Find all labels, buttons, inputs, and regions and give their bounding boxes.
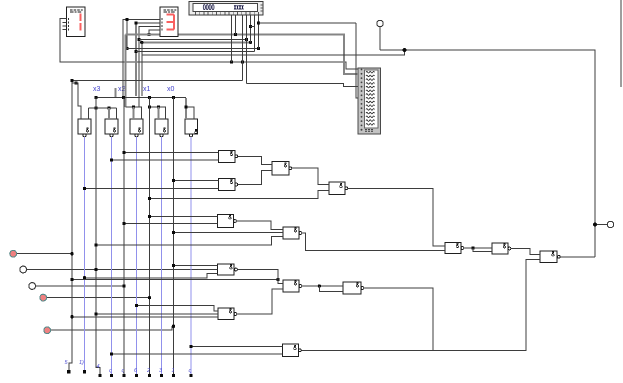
wire gate M out xyxy=(560,256,596,258)
NAND gate H xyxy=(218,308,237,320)
junction c7 xyxy=(257,21,260,24)
junction xyxy=(135,304,138,307)
junction xyxy=(148,197,151,200)
junction xyxy=(157,105,160,108)
tap to gate N input2 xyxy=(124,223,218,225)
tap to gate H input1 xyxy=(137,306,219,312)
blue output DD1 xyxy=(84,137,86,371)
wire v115.4 xyxy=(114,88,116,98)
junction xyxy=(125,47,128,50)
NAND gate J xyxy=(283,344,302,357)
junction xyxy=(134,50,137,53)
junction xyxy=(234,33,237,36)
wire gate F out to G xyxy=(237,270,283,284)
LCD display module xyxy=(189,2,263,16)
svg-text:2: 2 xyxy=(146,368,150,374)
wire v136 xyxy=(135,23,137,96)
junction on y62 run xyxy=(241,60,244,63)
input terminal T3 xyxy=(29,283,124,290)
NAND gate E xyxy=(283,227,302,239)
wire v141 xyxy=(141,42,143,96)
wire run y51.5 xyxy=(136,51,255,53)
wire run y48.5 xyxy=(127,48,259,50)
svg-text:1): 1) xyxy=(79,360,84,366)
junction xyxy=(184,105,187,108)
wire HL1 to ROM pin1 xyxy=(60,19,358,70)
junction xyxy=(137,38,140,41)
bottom endpoint dot 3 xyxy=(98,374,101,377)
svg-text:4: 4 xyxy=(97,364,100,370)
wire run y42.4 xyxy=(142,41,251,43)
junction T1 node xyxy=(70,252,73,255)
net input1 vertical xyxy=(69,82,72,370)
wire DD4 left pin xyxy=(158,107,160,119)
svg-text:x0: x0 xyxy=(167,86,175,93)
junction xyxy=(110,352,113,355)
wire v356 to ROM pin6 xyxy=(356,23,358,98)
bottom endpoint dot 10 xyxy=(189,374,192,377)
svg-text:x3: x3 xyxy=(93,86,101,93)
bottom endpoint dot 8 xyxy=(160,374,163,377)
junction xyxy=(148,105,151,108)
wire HL2 pin2 feed xyxy=(136,22,160,24)
input terminal T2 xyxy=(20,266,218,273)
wire branch v127 xyxy=(126,20,128,49)
DD4 top feed run xyxy=(150,107,166,119)
NAND gate F xyxy=(218,264,238,275)
tap to gate H input2 xyxy=(96,313,218,315)
wire branch to L input2 xyxy=(473,248,492,252)
wire run y55 to junction xyxy=(142,50,405,55)
NAND gate K xyxy=(445,243,464,254)
svg-text:1: 1 xyxy=(172,368,175,374)
NAND gate A xyxy=(219,151,238,163)
NAND gate B xyxy=(219,179,238,191)
blue output DD2 xyxy=(111,137,113,375)
junction xyxy=(148,215,151,218)
7-segment display HL1 xyxy=(63,7,86,37)
ROM chip U1 xyxy=(358,68,381,134)
wire gate H out to G xyxy=(237,289,283,314)
LCD column c4 xyxy=(246,15,248,84)
blue output DD3 xyxy=(136,137,138,375)
tap to gate B input2 xyxy=(85,188,219,190)
junction xyxy=(403,48,407,52)
tap to gate F input1 xyxy=(174,265,218,267)
NAND gate L xyxy=(492,243,511,254)
vertical NAND DD5 xyxy=(185,119,198,137)
LCD right pins xyxy=(261,5,264,11)
junction xyxy=(471,246,474,249)
tap to gate J input2 xyxy=(112,353,283,355)
junction T4 node xyxy=(148,296,151,299)
wire gate K out to L xyxy=(464,247,492,249)
junction xyxy=(318,284,321,287)
wire DD2 left pin xyxy=(108,108,110,119)
junction xyxy=(83,276,86,279)
junction xyxy=(70,278,73,281)
junction xyxy=(147,33,150,36)
junction xyxy=(122,222,125,225)
junction xyxy=(172,264,175,267)
LCD column c7 xyxy=(258,15,260,49)
wire branch to DD1 top xyxy=(72,83,81,119)
wire c5 stub xyxy=(251,26,255,28)
DD3 top feed run xyxy=(126,107,142,119)
bottom endpoint dot 6 xyxy=(135,374,138,377)
blue output DD4 xyxy=(161,137,163,375)
wire HL2 pin1 feed xyxy=(123,20,160,98)
tap to gate G input1 xyxy=(72,279,278,281)
junction xyxy=(70,79,73,82)
junction xyxy=(83,187,86,190)
net x0 vertical xyxy=(173,98,175,376)
LCD column c5 xyxy=(250,15,252,43)
net x1 vertical xyxy=(149,98,151,376)
junction T5 node xyxy=(172,325,175,328)
junction xyxy=(94,106,97,109)
bottom endpoint dot 4 xyxy=(110,374,113,377)
wire gate N out to E xyxy=(236,221,283,230)
tap to gate A input1 xyxy=(124,152,219,154)
input terminal T5 xyxy=(44,326,174,333)
bottom endpoint dot 9 xyxy=(172,374,175,377)
junction xyxy=(94,96,97,99)
wire run y80.5 to LCD column xyxy=(72,80,243,82)
wire gate A out to C xyxy=(238,156,272,164)
junction on y62 run xyxy=(230,60,233,63)
tap to gate F input2 xyxy=(85,274,218,278)
NAND gate I xyxy=(343,282,364,294)
svg-text:ς: ς xyxy=(109,368,112,374)
NAND gate C xyxy=(272,162,292,176)
tap to gate B input1 xyxy=(174,180,219,182)
junction xyxy=(122,151,125,154)
tap to gate E input2 xyxy=(174,232,284,234)
junction xyxy=(172,96,175,99)
vertical NAND DD3 xyxy=(130,119,143,137)
wire gate C out to D xyxy=(292,168,329,184)
bottom endpoint dot 2 xyxy=(83,370,86,373)
input terminal T1 xyxy=(10,250,72,257)
wire run y23 xyxy=(259,22,357,24)
wire gate B out to C xyxy=(238,171,272,185)
svg-text:ς: ς xyxy=(122,368,125,374)
junction xyxy=(257,47,260,50)
LCD column c1 xyxy=(231,15,233,63)
bottom endpoint dot 7 xyxy=(148,374,151,377)
junction xyxy=(110,158,113,161)
input terminal T4 xyxy=(40,294,150,301)
tap to gate A input2 xyxy=(112,159,219,161)
NAND gate G xyxy=(283,280,302,292)
wire gate G out to I xyxy=(302,285,343,287)
wire v125.5 xyxy=(125,35,127,108)
net x3 vertical xyxy=(96,98,100,376)
junction c5 stub xyxy=(249,25,252,28)
tap to gate J input1 xyxy=(191,346,283,348)
tap to gate H input3 xyxy=(72,316,218,318)
LCD column c3 xyxy=(242,15,244,81)
junction xyxy=(94,243,97,246)
wire run y39.5 xyxy=(139,39,247,41)
wire bus y34.5 to ROM pin2 xyxy=(126,34,160,36)
junction xyxy=(148,96,151,99)
tap to gate D input2 xyxy=(150,191,330,199)
wire far right edge xyxy=(620,0,622,87)
junction xyxy=(125,18,128,21)
junction xyxy=(172,179,175,182)
output terminal right xyxy=(595,221,614,227)
DD5 top feed run xyxy=(185,98,187,119)
7-segment display HL2 xyxy=(160,7,178,37)
junction xyxy=(276,278,279,281)
junction xyxy=(172,231,175,234)
wire gate I out down xyxy=(364,288,433,351)
junction xyxy=(70,315,73,318)
bottom endpoint dot 1 xyxy=(67,370,70,373)
junction xyxy=(107,106,110,109)
junction xyxy=(74,81,77,84)
tap to gate E input3 xyxy=(96,237,283,246)
blue output DD5 xyxy=(190,137,192,375)
NAND gate M xyxy=(540,251,560,263)
junction xyxy=(122,96,125,99)
vertical NAND DD2 xyxy=(105,119,118,137)
junction xyxy=(249,41,252,44)
wire HL2 pin3 feed xyxy=(139,27,160,108)
vertical NAND DD4 xyxy=(155,119,168,137)
wire gate E out to K xyxy=(302,233,445,251)
wire top terminal to v595 xyxy=(380,50,595,257)
wire gate J out to M xyxy=(301,260,540,351)
junction output node xyxy=(593,223,597,227)
NAND gate D xyxy=(329,182,348,195)
junction xyxy=(189,345,192,348)
junction T2 node xyxy=(94,268,97,271)
junction xyxy=(134,21,137,24)
wire HL2 pin4 feed xyxy=(149,30,160,35)
junction T3 node xyxy=(122,284,125,287)
junction xyxy=(94,312,97,315)
NAND gate N xyxy=(218,215,237,228)
wire LCD column c4 to ROM pin5 xyxy=(247,83,359,86)
junction xyxy=(245,38,248,41)
wire DD3 left pin xyxy=(133,107,135,119)
wire corner to DD1 right pin xyxy=(88,108,90,119)
bus y97.5 xyxy=(96,97,186,99)
wire gate L out to M xyxy=(511,249,540,255)
wire branch to I input2 xyxy=(319,286,343,292)
output terminal top xyxy=(377,20,383,50)
LCD column c2 xyxy=(235,15,237,35)
svg-text:ς: ς xyxy=(189,368,192,374)
net x2 vertical xyxy=(123,98,125,376)
svg-text:x2: x2 xyxy=(118,86,126,93)
bottom endpoint dot 5 xyxy=(122,374,125,377)
junction xyxy=(140,41,143,44)
wire gate D out to K xyxy=(348,188,445,246)
junction xyxy=(132,105,135,108)
wire corner to DD2 right pin xyxy=(115,108,117,119)
DD1/DD2 top feed run xyxy=(89,107,117,109)
vertical NAND DD1 (x3 column) xyxy=(78,119,91,137)
LCD bottom pins xyxy=(196,12,259,14)
tap to gate N input1 xyxy=(150,216,218,218)
LCD column c6 xyxy=(254,15,256,52)
svg-text:x1: x1 xyxy=(143,86,151,93)
